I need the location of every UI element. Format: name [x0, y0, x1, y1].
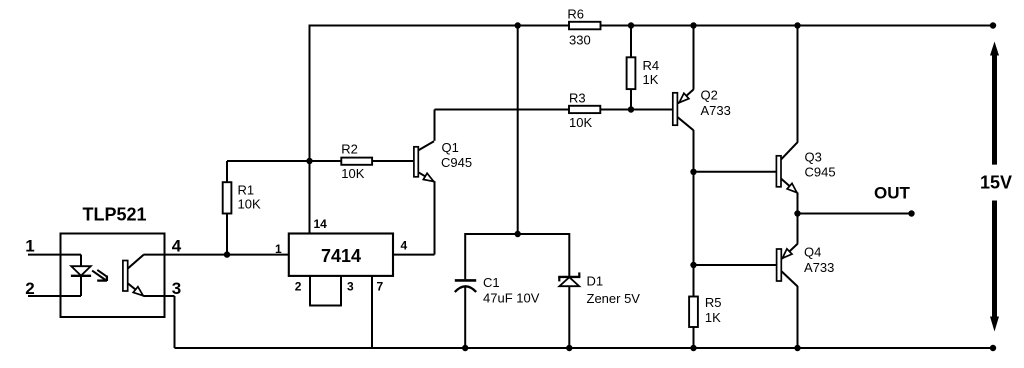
svg-text:47uF 10V: 47uF 10V	[483, 291, 540, 306]
zener diode D1 5V	[558, 233, 640, 348]
svg-text:Q4: Q4	[804, 245, 821, 260]
bottom rail (ground return)	[175, 347, 994, 349]
pin 7 wire to bottom rail	[372, 276, 384, 348]
svg-text:10K: 10K	[569, 115, 592, 130]
node: R2 / R1 / pin14 junction	[306, 158, 312, 164]
node: bottom rail / R5	[690, 345, 696, 351]
wire: 7414 pin 4 to Q1 emitter	[393, 254, 435, 256]
top rail 15V	[310, 25, 994, 27]
svg-text:R3: R3	[569, 91, 586, 106]
node: R3/R4 junction	[628, 106, 634, 112]
transistor Q3 C945 (NPN)	[776, 25, 835, 214]
svg-text:A733: A733	[804, 260, 834, 275]
pin 1 (TLP521 anode)	[25, 237, 81, 256]
wire: top rail down to R2 junction and 7414 pin 14	[309, 25, 311, 234]
svg-text:R6: R6	[567, 6, 584, 21]
node: top rail / R4	[628, 22, 634, 28]
node: C1/D1 link junction	[515, 231, 521, 237]
svg-text:7414: 7414	[321, 246, 361, 266]
wire: junction column down to Q4 base / R5	[693, 172, 695, 297]
resistor R3	[569, 91, 600, 130]
svg-text:15V: 15V	[980, 173, 1012, 193]
svg-text:1K: 1K	[705, 310, 721, 325]
15V supply span arrow (top)	[990, 42, 999, 165]
node: OUT terminal	[908, 210, 914, 216]
node: top rail / Q2 emitter	[690, 22, 696, 28]
svg-text:3: 3	[347, 280, 354, 294]
light emission arrows	[92, 270, 107, 281]
node: R1 bottom / pin-4 net	[224, 251, 230, 257]
svg-text:2: 2	[295, 280, 302, 294]
node: top rail right end	[990, 22, 996, 28]
wire: R3 net from Q1 collector to Q2 base	[435, 109, 673, 111]
node: bottom rail right end	[990, 345, 996, 351]
svg-text:A733: A733	[701, 103, 731, 118]
svg-text:7: 7	[377, 280, 384, 294]
svg-text:14: 14	[314, 217, 328, 231]
node: OUT junction	[794, 210, 800, 216]
wire: to Q4 base	[694, 264, 778, 266]
svg-text:C945: C945	[805, 165, 836, 180]
node: Q4 base junction	[690, 262, 696, 268]
svg-text:R5: R5	[705, 295, 722, 310]
svg-text:Q1: Q1	[442, 140, 459, 155]
resistor R5	[689, 295, 721, 348]
svg-text:330: 330	[569, 32, 591, 47]
svg-text:4: 4	[172, 237, 182, 256]
transistor Q2 A733 (PNP)	[673, 25, 731, 172]
node: top rail / C1 branch	[515, 22, 521, 28]
svg-text:TLP521: TLP521	[83, 204, 147, 224]
wire: OUT line	[798, 213, 912, 215]
wire: top rail down to C1/D1	[517, 26, 519, 235]
svg-text:R1: R1	[238, 182, 255, 197]
pins 2-3 link below 7414	[295, 276, 354, 306]
capacitor C1 47uF 10V	[455, 233, 540, 348]
svg-text:1K: 1K	[643, 72, 659, 87]
transistor Q4 A733 (PNP)	[777, 214, 835, 349]
15V supply span arrow (bottom)	[990, 201, 999, 332]
svg-text:Zener 5V: Zener 5V	[587, 291, 641, 306]
phototransistor inside TLP521	[123, 255, 144, 296]
svg-text:C1: C1	[483, 275, 500, 290]
wire: Q2 collector to Q3 base	[694, 171, 777, 173]
optocoupler U? TLP521 box	[61, 204, 165, 317]
pin 4 (TLP521 collector) wire to 7414 pin 1	[143, 237, 288, 256]
svg-text:Q2: Q2	[701, 88, 718, 103]
svg-text:4: 4	[401, 239, 408, 253]
transistor Q1 C945 (NPN)	[414, 110, 472, 255]
resistor R6	[567, 6, 600, 47]
IC U1 7414	[289, 234, 393, 276]
svg-text:1: 1	[275, 242, 282, 256]
node: bottom rail / C1	[462, 345, 468, 351]
svg-text:OUT: OUT	[874, 184, 911, 203]
svg-text:10K: 10K	[238, 197, 261, 212]
wire: C1 to D1 top link	[465, 233, 569, 235]
svg-text:R4: R4	[643, 58, 660, 73]
pin 2 (TLP521 cathode)	[25, 279, 81, 298]
svg-text:D1: D1	[587, 274, 604, 289]
svg-text:1: 1	[25, 237, 34, 256]
resistor R2	[310, 141, 415, 181]
resistor R1	[223, 161, 310, 255]
svg-text:10K: 10K	[341, 166, 364, 181]
LED inside TLP521	[71, 255, 91, 296]
node: bottom rail / D1	[566, 345, 572, 351]
node: top rail / Q3 collector	[794, 22, 800, 28]
pin 3 (TLP521 emitter) wire down to bottom rail	[143, 279, 181, 348]
node: Q2 collector / Q3 base junction	[690, 169, 696, 175]
svg-text:R2: R2	[341, 141, 358, 156]
resistor R4	[627, 26, 660, 110]
node: bottom rail / Q4 collector	[794, 345, 800, 351]
svg-text:C945: C945	[441, 155, 472, 170]
svg-text:Q3: Q3	[805, 150, 822, 165]
